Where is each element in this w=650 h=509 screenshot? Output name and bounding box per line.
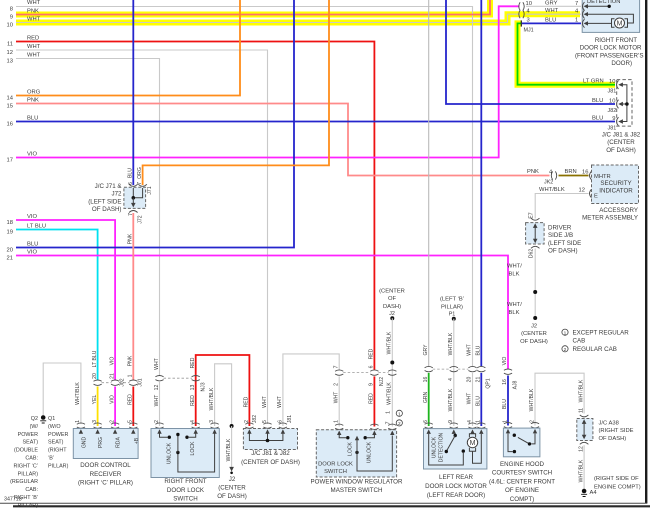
svg-text:OF DASH): OF DASH) <box>92 206 122 213</box>
left rear door lock motor box <box>424 429 487 469</box>
bus branch to pin 10 <box>621 103 627 105</box>
svg-text:WHT/BLK: WHT/BLK <box>226 438 232 461</box>
svg-text:GRN: GRN <box>423 392 429 404</box>
svg-text:RECEIVER: RECEIVER <box>90 471 122 478</box>
wire WHT/BLK from D62 down to J2 <box>534 249 536 318</box>
J/C J81 J82 dashed box <box>617 80 632 127</box>
wire GRN to motor pin 6 <box>428 373 430 426</box>
svg-text:(LEFT SIDE: (LEFT SIDE <box>88 198 121 205</box>
svg-text:(CENTER: (CENTER <box>218 485 246 492</box>
receiver pin 2 arrow <box>113 429 117 434</box>
svg-text:16: 16 <box>7 122 13 128</box>
svg-text:P1: P1 <box>449 311 456 317</box>
pin 7 stub L to junction dot <box>135 188 143 198</box>
engine hood courtesy switch box <box>503 428 540 457</box>
svg-text:M: M <box>470 440 476 447</box>
svg-text:GRY: GRY <box>423 344 429 356</box>
right front door lock motor box <box>582 0 639 32</box>
svg-text:(FRONT PASSENGER’S: (FRONT PASSENGER’S <box>575 52 644 59</box>
motor box pin 4 arrow <box>584 12 589 16</box>
lever lower dot <box>176 451 179 454</box>
svg-text:1: 1 <box>334 420 340 423</box>
svg-text:WHT: WHT <box>27 0 41 6</box>
lock contact dot <box>185 436 188 439</box>
svg-text:PRG: PRG <box>98 437 104 448</box>
lock contact wire from pin 4 <box>189 433 196 437</box>
svg-text:9: 9 <box>612 116 615 122</box>
unlock contact dot <box>364 436 367 439</box>
J2 tail wire <box>231 426 233 468</box>
svg-text:RED: RED <box>27 36 39 42</box>
wire RED to master switch pin 9 <box>373 376 375 426</box>
svg-text:WHT: WHT <box>467 393 473 405</box>
svg-text:M: M <box>617 21 623 28</box>
wire LT GRN from MJ1 splice down and right to J/C J81 pin 10 <box>518 23 616 84</box>
motor box pin 4 connector arc <box>583 10 585 19</box>
arrow to J81 pin 9 <box>618 119 623 123</box>
svg-text:2: 2 <box>564 347 567 353</box>
svg-text:ORG: ORG <box>137 167 143 179</box>
svg-text:REGULAR CAB: REGULAR CAB <box>573 346 617 353</box>
svg-text:J72: J72 <box>112 191 123 198</box>
svg-text:BLU: BLU <box>502 399 508 409</box>
wire row 9 PNK, turns up at x=490 off top <box>16 0 490 15</box>
wire WHT from connector to motor pin 4 <box>526 13 581 15</box>
junction dot <box>132 196 136 200</box>
svg-text:J2: J2 <box>531 324 537 330</box>
svg-text:J2: J2 <box>389 311 395 317</box>
unlock contact dot <box>168 436 171 439</box>
fixed contact dot <box>513 434 516 437</box>
master pin 7 arrow <box>390 431 394 436</box>
svg-text:ACCESSORY: ACCESSORY <box>599 207 638 214</box>
svg-text:PNK: PNK <box>27 9 39 15</box>
J2 terminal dot <box>230 472 233 475</box>
splice dot <box>533 290 537 294</box>
svg-text:PNK: PNK <box>127 355 133 366</box>
svg-text:SWITCH: SWITCH <box>173 496 197 503</box>
svg-text:(CENTER OF DASH): (CENTER OF DASH) <box>241 459 300 466</box>
svg-text:PNK: PNK <box>527 169 539 175</box>
svg-text:MHTR: MHTR <box>594 174 611 180</box>
connector 13 NJ3 on RED <box>192 376 200 381</box>
svg-text:(RIGHT ‘C’ PILLAR): (RIGHT ‘C’ PILLAR) <box>78 480 133 487</box>
J/C pin 2 arrow <box>247 429 251 434</box>
pin 7 connector arc <box>138 184 147 186</box>
wire WHT/BLK from security indicator pin 12 to driver side J/B <box>535 194 588 219</box>
wire row 14 ORG, up at x=240 off top <box>16 0 240 96</box>
svg-text:10: 10 <box>7 23 13 29</box>
svg-text:PNK: PNK <box>128 233 134 244</box>
svg-text:A4: A4 <box>590 490 598 496</box>
svg-text:LT BLU: LT BLU <box>92 350 98 367</box>
security indicator dashed box <box>592 165 639 204</box>
receiver pin 3 arrow <box>95 429 99 434</box>
svg-text:RED: RED <box>369 393 375 404</box>
connector NJ2 on RED wire <box>370 370 378 375</box>
wire BLU from MJ1 to motor pin 1 <box>522 22 581 24</box>
detection lever <box>446 436 455 452</box>
connector arc J82 pin 10 <box>617 100 619 109</box>
J/C internal bus <box>249 434 283 441</box>
arrow head down to J72 <box>131 203 136 208</box>
J/C J81 J82 bottom dashed box <box>243 429 297 450</box>
svg-text:LT GRN: LT GRN <box>583 79 604 85</box>
highlight LT GRN wire MJ1 to J81 <box>518 23 616 84</box>
svg-text:17: 17 <box>7 158 13 164</box>
ground A4 tick <box>581 494 587 496</box>
connector link dashes motor <box>433 368 478 370</box>
svg-text:BLU: BLU <box>476 345 482 355</box>
svg-text:Q2: Q2 <box>31 416 38 422</box>
svg-text:BLU: BLU <box>27 116 38 122</box>
svg-text:D62: D62 <box>529 249 535 259</box>
connector arc J81 pin 10 <box>617 80 619 89</box>
wire BLU to motor pin 1 <box>480 373 482 426</box>
receiver pin 2 connector arc <box>111 423 119 428</box>
svg-text:J81: J81 <box>608 89 617 95</box>
svg-text:COURTESY SWITCH: COURTESY SWITCH <box>492 470 552 477</box>
svg-text:13: 13 <box>7 59 13 65</box>
svg-text:LOCK: LOCK <box>190 441 196 455</box>
connector on VIO wire pin 10 <box>519 2 524 10</box>
svg-text:LOCK: LOCK <box>348 441 354 455</box>
svg-text:12: 12 <box>579 446 585 452</box>
svg-text:NJ2: NJ2 <box>379 377 385 386</box>
config circle 2 <box>396 420 402 426</box>
config circle 1 <box>396 410 402 416</box>
motor M circle <box>467 437 477 447</box>
motor pin 6 arrow <box>427 429 431 434</box>
svg-text:VIO: VIO <box>27 152 37 158</box>
detection common dot <box>462 449 465 452</box>
J/C bus dot <box>266 439 270 443</box>
svg-text:VIO: VIO <box>502 357 508 366</box>
connector 4 on WHT/BLK <box>450 366 458 371</box>
wire row 19 LT BLU, down at x=97.6 <box>16 230 98 381</box>
lock contact wire from pin 1 <box>339 435 346 438</box>
svg-text:J01: J01 <box>138 378 144 386</box>
driver side J/B dashed box <box>526 223 545 244</box>
svg-text:21: 21 <box>110 373 116 379</box>
svg-text:1: 1 <box>128 374 134 377</box>
receiver pin 1 connector arc <box>77 423 85 428</box>
wire YEL to receiver PRG <box>97 387 99 427</box>
svg-text:WHT: WHT <box>27 53 41 59</box>
svg-text:ENGINE COMPT): ENGINE COMPT) <box>594 484 641 490</box>
svg-text:6: 6 <box>128 182 134 185</box>
wire row 20 BLU, up at x=294 off top <box>16 0 294 248</box>
svg-text:8: 8 <box>10 7 13 13</box>
svg-text:BLU: BLU <box>545 17 556 23</box>
svg-text:VIO: VIO <box>27 250 37 256</box>
svg-text:WHT/BLK: WHT/BLK <box>578 379 584 402</box>
J/B through arrow <box>534 226 536 242</box>
svg-text:OF: OF <box>388 296 397 302</box>
svg-text:DRIVER: DRIVER <box>548 225 572 232</box>
switch pin 2 arrow <box>157 429 161 434</box>
svg-text:WHT/BLK: WHT/BLK <box>578 459 584 482</box>
svg-text:20: 20 <box>467 377 473 383</box>
A38 arrow head up <box>582 419 587 424</box>
frame bottom heavy line <box>13 505 650 507</box>
wire VIO to receiver RDA <box>114 387 116 427</box>
arrow to J82 pin 10 <box>618 102 623 106</box>
svg-text:RED: RED <box>190 357 196 368</box>
svg-text:SIDE J/B: SIDE J/B <box>548 232 573 239</box>
svg-text:SECURITY: SECURITY <box>600 180 631 187</box>
frame bottom line <box>0 502 647 504</box>
svg-text:12: 12 <box>579 187 585 193</box>
svg-text:BLK: BLK <box>509 310 520 316</box>
svg-text:DASH): DASH) <box>383 304 401 310</box>
wire row 8 WHT horizontal, to x=472.5 then down to left rear door lock motor <box>16 7 473 367</box>
svg-text:WHT/BLK: WHT/BLK <box>539 187 565 193</box>
svg-text:GND: GND <box>82 437 88 449</box>
J/C bus stub pin 5 <box>267 434 269 441</box>
junction dot on BLU 10 <box>625 102 629 106</box>
receiver pin 5 arrow <box>131 429 135 434</box>
svg-text:20: 20 <box>7 248 13 254</box>
receiver pin 3 connector arc <box>94 423 102 428</box>
switch pin 4 arrow <box>194 429 198 434</box>
motor pin 1 connector arc <box>477 423 485 428</box>
svg-text:QP1: QP1 <box>486 378 492 388</box>
svg-text:MJ1: MJ1 <box>524 28 534 34</box>
motor box pin 7 arrow <box>584 4 589 8</box>
A38 bottom connector arc <box>580 442 589 444</box>
svg-text:WHT/BLK: WHT/BLK <box>387 382 393 405</box>
svg-text:16: 16 <box>582 170 588 176</box>
J2 terminal arrow <box>229 467 234 472</box>
arrow down to J72 pin 7 <box>132 198 134 204</box>
detection lever lower dot <box>445 450 448 453</box>
connector 21 QP1 on BLU <box>477 366 485 371</box>
svg-text:J81: J81 <box>287 415 293 423</box>
connector arc E7 <box>531 218 540 220</box>
svg-text:WHT: WHT <box>27 44 41 50</box>
svg-text:CAB: CAB <box>573 337 586 344</box>
J72 pin 7 connector arc <box>129 211 138 213</box>
J/B arrow head down <box>533 239 538 244</box>
svg-text:RED: RED <box>190 395 196 406</box>
svg-text:(CENTER: (CENTER <box>521 331 547 337</box>
svg-text:10: 10 <box>609 79 615 85</box>
lever dot <box>355 451 358 454</box>
motor box pin 1 arrow <box>584 21 589 25</box>
connector arc E pin <box>590 189 592 198</box>
svg-text:J82: J82 <box>252 415 258 423</box>
wire GRY to detection pin 7 <box>526 5 581 7</box>
svg-text:(4.6L: CENTER FRONT: (4.6L: CENTER FRONT <box>489 478 555 485</box>
wire WHT to switch pin 2 <box>159 382 161 426</box>
svg-text:POWER: POWER <box>48 432 68 438</box>
connector on WHT wire pin 4 <box>519 10 524 18</box>
svg-text:SEAT): SEAT) <box>48 440 64 446</box>
svg-text:1: 1 <box>75 420 81 423</box>
wire BLU to hood switch pin 1 <box>507 376 509 426</box>
svg-text:PILLAR): PILLAR) <box>18 503 39 509</box>
motor bottom wire to pin 1 <box>473 434 482 463</box>
motor box pin 1 connector arc <box>583 19 585 28</box>
svg-text:1: 1 <box>564 330 567 336</box>
svg-text:OF DASH): OF DASH) <box>520 339 548 345</box>
svg-text:EXCEPT REGULAR: EXCEPT REGULAR <box>573 330 630 337</box>
wire WHT to motor pin 4 <box>472 373 474 426</box>
connector 16 AJ8 on VIO/BLU <box>504 369 512 374</box>
J2 splice dot <box>230 424 234 428</box>
svg-text:OF DASH): OF DASH) <box>606 147 636 154</box>
svg-text:VIO: VIO <box>109 357 115 366</box>
svg-text:CAB:: CAB: <box>25 456 38 462</box>
svg-text:J/C J81 & J82: J/C J81 & J82 <box>602 132 641 139</box>
svg-text:15: 15 <box>7 104 13 110</box>
hood pin 2 arrow <box>533 429 537 434</box>
svg-text:J/C J81 & J82: J/C J81 & J82 <box>251 450 290 457</box>
svg-text:SEAT): SEAT) <box>23 440 39 446</box>
svg-text:DOOR LOCK: DOOR LOCK <box>318 462 353 468</box>
svg-text:(RIGHT SIDE: (RIGHT SIDE <box>599 428 634 434</box>
ground A4 dot <box>582 489 587 494</box>
svg-text:PILLAR): PILLAR) <box>48 463 69 469</box>
svg-text:UNLOCK: UNLOCK <box>432 436 438 458</box>
common wire lever to pin 7 <box>357 436 392 472</box>
svg-text:1: 1 <box>575 18 578 24</box>
svg-text:9: 9 <box>369 383 375 386</box>
wire ORG vertical x=329 from top, left at y=165.4 to J/C J71 pin 7 <box>143 0 329 185</box>
wire row 21 VIO, down at x=508 to engine hood courtesy switch <box>16 256 508 370</box>
svg-text:11: 11 <box>7 42 13 48</box>
frame right vertical bar <box>645 0 647 504</box>
svg-text:OF ENGINE: OF ENGINE <box>505 487 539 494</box>
svg-text:J72: J72 <box>138 215 144 223</box>
svg-text:12: 12 <box>154 385 160 391</box>
pin 6 connector arc <box>129 184 138 186</box>
master pin 9 connector arc <box>370 424 378 429</box>
svg-text:RED: RED <box>369 348 375 359</box>
highlight row 10 WHT wire to motor pin 4 <box>16 14 580 22</box>
svg-text:1: 1 <box>386 411 392 414</box>
wire BLU vertical x=481.3 from top to left rear door lock motor conn <box>480 0 482 366</box>
wire WHT/BLK from A38 to ground A4 <box>583 445 585 489</box>
splice J2 terminal dot <box>390 316 394 320</box>
splice MJ1 tick <box>520 20 522 26</box>
switch pin 4 connector arc <box>192 423 200 428</box>
wire row 13 WHT, down at x=159.5 to door lock switch pin 2 <box>16 59 160 377</box>
unlock contact wire from pin 2 <box>160 433 168 437</box>
ground tick <box>40 421 46 423</box>
svg-text:ENGINE HOOD: ENGINE HOOD <box>500 461 545 468</box>
svg-text:(CENTER: (CENTER <box>379 289 405 295</box>
svg-text:RIGHT FRONT: RIGHT FRONT <box>164 478 206 485</box>
motor pin 4 arrow <box>470 429 474 434</box>
splice J2 dot <box>533 316 537 320</box>
svg-text:WHT: WHT <box>545 8 559 14</box>
wire row 10 WHT, steps up to right front door lock motor pin 4 <box>16 14 520 22</box>
wire WHT/BLK from switch pin 3 to J2 <box>215 364 232 426</box>
svg-text:4: 4 <box>448 378 454 381</box>
wire GRY vertical x=428.7 from top to left rear door lock motor conn <box>428 0 430 366</box>
svg-text:COMPT): COMPT) <box>510 496 534 503</box>
junction dot on WHT/BLK <box>390 361 394 365</box>
svg-text:INDICATOR: INDICATOR <box>599 188 633 195</box>
svg-text:J71: J71 <box>147 186 153 194</box>
hood pin 1 arrow <box>506 429 510 434</box>
svg-text:WHT/: WHT/ <box>507 264 522 270</box>
switch pin 3 arrow <box>212 429 216 434</box>
svg-text:7: 7 <box>137 182 143 185</box>
svg-text:WHT/BLK: WHT/BLK <box>387 331 393 354</box>
svg-text:Q1: Q1 <box>48 416 55 422</box>
svg-text:YEL: YEL <box>92 395 98 405</box>
svg-text:J2: J2 <box>229 476 236 483</box>
receiver pin 1 arrow <box>79 429 83 434</box>
motor symbol bottom bracket <box>469 448 475 452</box>
motor symbol top bracket <box>469 434 475 438</box>
lever arrow head <box>355 436 359 440</box>
wire WHT/BLK from receiver GND to pillar ground <box>43 363 81 424</box>
svg-text:VIO: VIO <box>109 395 115 404</box>
svg-text:7: 7 <box>575 1 578 7</box>
svg-text:WHT/BLK: WHT/BLK <box>529 388 535 411</box>
wire row 12 WHT, down at x=267.5 to J/C J81 pin 5 <box>16 50 268 424</box>
svg-text:(W/: (W/ <box>30 424 39 430</box>
motor box pin 7 connector arc <box>583 2 585 11</box>
switch lever <box>518 437 530 444</box>
svg-text:6: 6 <box>369 365 375 368</box>
svg-text:OF DASH): OF DASH) <box>548 248 578 255</box>
connector link dashes master switch <box>343 372 388 374</box>
pin 2 contact wire <box>531 434 535 444</box>
lock contact dot <box>346 436 349 439</box>
detection contact dot <box>608 5 611 8</box>
svg-text:12: 12 <box>7 50 13 56</box>
switch lever with up arrow <box>356 439 358 452</box>
svg-text:+B: +B <box>134 437 140 444</box>
highlight row 9 PNK wire <box>16 0 490 15</box>
svg-text:WHT: WHT <box>154 358 160 370</box>
svg-text:WHT/BLK: WHT/BLK <box>75 382 81 405</box>
svg-text:BLK: BLK <box>509 272 520 278</box>
wire pin 4 to motor right terminal <box>588 14 633 23</box>
wire BLU vertical x=133.3 from top to J/C J71 pin 6 <box>132 0 134 185</box>
motor pin 9 arrow <box>452 429 456 434</box>
svg-text:9: 9 <box>10 15 13 21</box>
connector 16 on GRY/GRN <box>425 366 433 371</box>
ground P1 terminal dot <box>452 317 456 321</box>
motor M circle <box>615 18 625 28</box>
svg-text:14: 14 <box>7 96 14 102</box>
wire RED to receiver +B <box>132 387 134 427</box>
pin 6 stub to junction dot <box>132 188 134 198</box>
wire WHT to master switch pin 1 <box>338 376 340 426</box>
receiver pin 5 connector arc <box>129 423 137 428</box>
svg-text:BLU: BLU <box>476 396 482 406</box>
svg-text:WHT: WHT <box>467 344 473 356</box>
detection switch wire from pin 7 <box>588 5 609 7</box>
A38 top connector arc <box>580 415 589 417</box>
svg-text:18: 18 <box>7 220 13 226</box>
switch pin 3 connector arc <box>211 423 219 428</box>
pin 1 contact dot <box>513 450 516 453</box>
master pin 1 arrow <box>337 431 341 436</box>
svg-text:LT BLU: LT BLU <box>27 224 46 230</box>
J/C pin 6 connector arc <box>279 423 287 428</box>
svg-text:J82: J82 <box>608 108 617 114</box>
svg-text:WHT/: WHT/ <box>507 302 522 308</box>
motor pin 6 connector arc <box>425 423 433 428</box>
svg-text:MASTER SWITCH: MASTER SWITCH <box>331 487 383 494</box>
